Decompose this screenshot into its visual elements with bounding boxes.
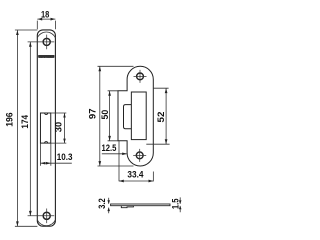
svg-text:52: 52 — [156, 112, 167, 123]
dim 174 line — [29, 42, 31, 216]
latch opening rectangle — [40, 113, 50, 143]
dim 12.5 leader line — [102, 153, 127, 155]
strike plate (long, front view) outline — [37, 30, 55, 226]
dim 30 extension lines — [51, 113, 66, 143]
svg-text:33.4: 33.4 — [127, 170, 144, 181]
dim 196 arrows — [16, 30, 19, 226]
latch cutout rectangle — [131, 92, 146, 140]
screw hole, top (ring) — [43, 38, 50, 45]
screw hole bottom right (ring) — [136, 152, 143, 159]
dim 33.4 right extension stub — [152, 172, 154, 182]
dim 3.2 arrows — [108, 198, 110, 213]
dim 50 extension stubs — [108, 91, 118, 141]
svg-text:HAFELE: HAFELE — [39, 54, 53, 58]
svg-text:50: 50 — [100, 110, 111, 120]
notch bottom — [45, 142, 48, 144]
extension line shared 12.5/33.4 — [118, 141, 120, 181]
screw hole top right (ring) — [137, 73, 144, 80]
svg-text:174: 174 — [20, 114, 31, 128]
dim 52 arrows — [165, 88, 168, 144]
dim 10.3 line — [40, 162, 71, 164]
dim 30 line — [64, 113, 66, 143]
dim 18 extension lines — [37, 21, 55, 30]
dim 1.5 arrows — [179, 197, 181, 212]
dim 18 line — [37, 18, 55, 20]
screw hole, bottom (ring) — [43, 212, 50, 219]
svg-text:12.5: 12.5 — [102, 143, 117, 154]
HAFELE logo bar — [38, 55, 54, 58]
dim 18 arrows — [37, 18, 55, 21]
dim 97 line — [99, 66, 101, 166]
dim 12.5 arrow — [122, 152, 127, 155]
dim 10.3 extension lines — [40, 144, 50, 166]
svg-text:1.5: 1.5 — [170, 198, 181, 209]
dim 52 extension lines — [146, 88, 169, 144]
svg-text:10.3: 10.3 — [57, 152, 73, 163]
notch top — [45, 113, 48, 115]
crosshair bottom right — [133, 149, 146, 162]
svg-text:3.2: 3.2 — [97, 198, 108, 209]
dim 50 arrows — [108, 91, 111, 141]
svg-text:18: 18 — [41, 9, 50, 20]
latch lip bump — [124, 105, 132, 129]
dim 33.4 arrows — [119, 180, 153, 183]
screw hole top crosshair — [28, 35, 55, 50]
svg-text:196: 196 — [5, 112, 16, 126]
crosshair top right — [134, 70, 147, 83]
countersink dome arc, bottom hole — [37, 220, 55, 226]
dim 97 arrows — [98, 66, 101, 165]
svg-text:97: 97 — [88, 109, 99, 120]
dim 33.4 line — [119, 180, 153, 182]
dim 10.3 arrows — [41, 162, 51, 165]
svg-text:30: 30 — [54, 122, 65, 132]
plate profile bar — [111, 204, 170, 206]
dim 30 arrows — [63, 113, 66, 143]
box bump under bar — [121, 206, 133, 208]
short striking plate outline with box flange — [118, 66, 153, 166]
screw hole bottom crosshair — [28, 209, 55, 224]
countersink dome arc, top hole — [37, 32, 55, 38]
dim 196 line — [16, 30, 18, 226]
dim 97 extension lines — [98, 66, 134, 166]
dim 52 line — [165, 88, 167, 144]
dim 196 extension lines — [15, 30, 38, 226]
dim 50 line — [109, 91, 111, 141]
dim 174 arrows — [29, 42, 32, 216]
